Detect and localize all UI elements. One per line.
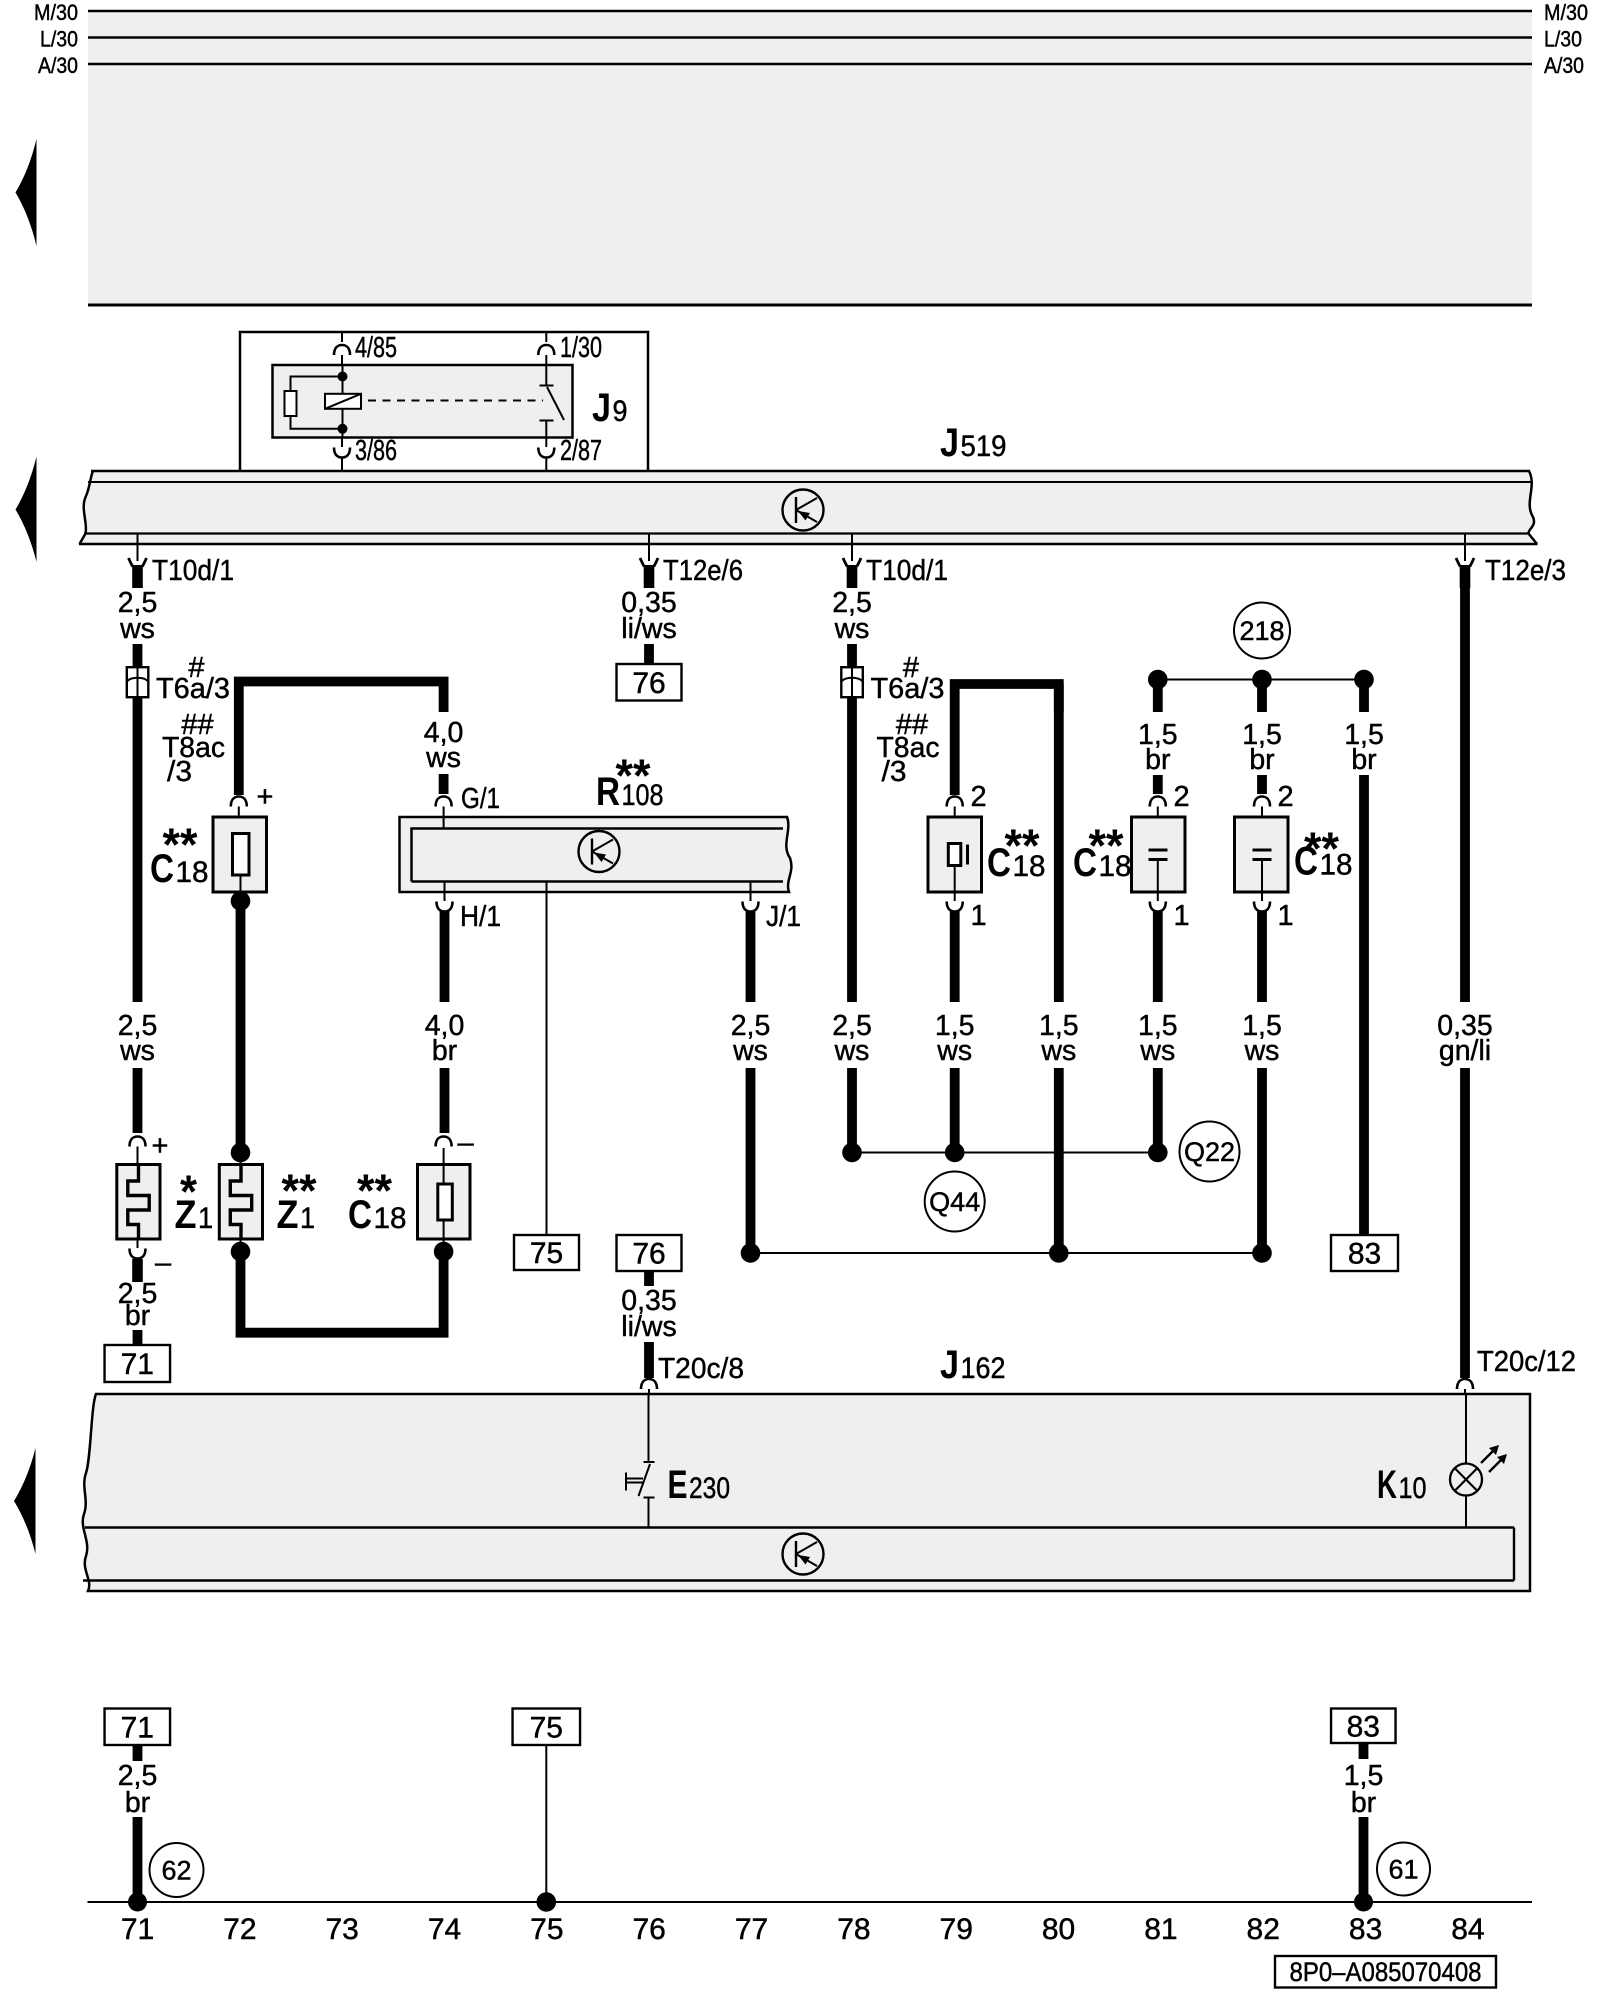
relay coil (325, 394, 361, 409)
C18 fifth labels (1073, 820, 1132, 886)
inline connector T6a/3 left (127, 667, 149, 697)
power rail band 30 (88, 11, 1532, 305)
wire C18 to Z1 second (231, 901, 251, 1165)
wire L/30 rail (40, 27, 1582, 52)
svg-text:C: C (987, 841, 1011, 885)
svg-text:1/30: 1/30 (560, 332, 602, 364)
junction dots on 218 link (1148, 670, 1374, 690)
junction dot left of Q44 line (842, 1143, 862, 1163)
wire T10d/1 to T6a/3 right (847, 644, 857, 668)
relay switch contact (540, 365, 565, 438)
terminal 1 of C18 fourth (947, 900, 987, 932)
svg-text:62: 62 (161, 1856, 191, 1886)
current track baseline (88, 1901, 1533, 1903)
continuation arrow at J519 (16, 457, 37, 563)
J162 internal K symbol (783, 1534, 824, 1575)
ground wire 1,5 br at 83 (1344, 1743, 1384, 1912)
junction below C18 third (434, 1242, 454, 1262)
svg-text:82: 82 (1247, 1913, 1280, 1946)
terminal 2/87 (538, 435, 602, 481)
svg-text:Z: Z (175, 1193, 197, 1237)
C18 third labels (348, 1165, 407, 1238)
svg-text:–: – (155, 1247, 172, 1279)
svg-text:230: 230 (689, 1472, 730, 1505)
wire 1,5 br to C18 fifth (1138, 680, 1178, 795)
wire T10d/1 to T6a/3 (133, 644, 143, 668)
wire 2,5 ws label left (118, 587, 158, 645)
R108 centre lead to ground 75 (546, 882, 548, 1236)
svg-text:76: 76 (633, 1913, 666, 1946)
C18 fourth labels (987, 820, 1046, 886)
svg-text:T12e/3: T12e/3 (1485, 555, 1566, 587)
svg-text:br: br (1249, 744, 1275, 776)
terminal 3/86 (334, 435, 397, 481)
ground lead box 75 bottom (513, 1709, 581, 1912)
svg-text:L/30: L/30 (1544, 27, 1582, 52)
ground designation box 76 mid (617, 1235, 682, 1271)
indicator lamp K10 (1377, 1394, 1507, 1528)
svg-text:C: C (150, 847, 174, 891)
ground designation box 75 mid (514, 1235, 579, 1270)
svg-text:80: 80 (1042, 1913, 1075, 1946)
node link line Q22 (852, 1152, 1158, 1154)
junction below C18 left (231, 891, 251, 911)
continuation arrow at J162 (14, 1448, 36, 1554)
svg-text:75: 75 (530, 1913, 563, 1946)
wire 1,5 ws hook leg down (1039, 684, 1079, 1263)
svg-text:76: 76 (632, 667, 665, 700)
svg-text:74: 74 (428, 1913, 461, 1946)
svg-text:br: br (432, 1035, 458, 1067)
svg-text:71: 71 (121, 1711, 154, 1744)
svg-text:79: 79 (940, 1913, 973, 1946)
terminal - of Z1 and pin to 71 (118, 1239, 172, 1345)
control unit J162 body (83, 1394, 1530, 1591)
svg-text:/3: /3 (167, 756, 192, 788)
svg-text:ws: ws (732, 1035, 768, 1067)
wire M/30 rail (34, 0, 1588, 25)
terminal T12e/6 (640, 534, 743, 589)
svg-text:10: 10 (1399, 1472, 1427, 1505)
svg-text:ws: ws (1139, 1035, 1175, 1067)
svg-text:L/30: L/30 (40, 27, 78, 52)
terminal 1 of C18 fifth (1150, 900, 1190, 932)
node number Q44 (925, 1172, 985, 1232)
heated washer jets R108 designator (596, 750, 664, 815)
wire 0,35 li/ws to T20c/8 (621, 1271, 744, 1394)
wire 1,5 br to C18 sixth (1242, 680, 1282, 795)
svg-text:2: 2 (971, 781, 987, 813)
inline connector T6a/3 right (841, 667, 863, 697)
svg-text:M/30: M/30 (1544, 0, 1588, 25)
svg-text:Q44: Q44 (929, 1187, 980, 1217)
svg-text:Q22: Q22 (1184, 1137, 1235, 1167)
terminal 2 of C18 fifth (1150, 781, 1190, 850)
terminal + of Z1 (130, 1130, 169, 1165)
svg-text:75: 75 (530, 1237, 563, 1270)
svg-text:76: 76 (632, 1238, 665, 1271)
wire 0,35 li/ws to ground 76 (621, 587, 676, 664)
terminal T12e/3 (1456, 534, 1566, 589)
svg-text:73: 73 (325, 1913, 358, 1946)
ground designation box 71 mid (105, 1345, 171, 1382)
svg-text:ws: ws (834, 1035, 870, 1067)
wire 1,5 ws C18 sixth down (1242, 912, 1282, 1263)
svg-text:ws: ws (119, 1035, 155, 1067)
wire hook T6a/3 to C18 pin 2 (955, 684, 1059, 795)
svg-text:br: br (125, 1300, 151, 1332)
svg-text:T12e/6: T12e/6 (663, 555, 743, 587)
wire 2,5 ws label right column (832, 587, 872, 645)
relay actuation dashed link (368, 400, 543, 402)
svg-text:ws: ws (834, 613, 870, 645)
svg-text:/3: /3 (882, 756, 907, 788)
svg-text:ws: ws (1244, 1035, 1280, 1067)
ground wire 2,5 br at 71 (118, 1745, 158, 1912)
terminal T10d/1 right (843, 534, 948, 589)
terminal + of C18 suppressor (231, 781, 274, 834)
svg-text:108: 108 (622, 779, 664, 812)
terminal 1 of C18 sixth (1254, 900, 1294, 932)
svg-text:gn/li: gn/li (1439, 1035, 1491, 1067)
svg-text:A/30: A/30 (38, 53, 78, 78)
node link line lower (751, 1252, 1263, 1254)
svg-text:ws: ws (119, 613, 155, 645)
connector labels # T6a/3 ## T8ac/3 left (156, 652, 230, 788)
ground designation box 71 bottom (105, 1709, 171, 1746)
C18 left labels (150, 819, 209, 892)
svg-text:li/ws: li/ws (621, 613, 676, 645)
wire 1,5 ws C18 fifth to Q22 node (1138, 912, 1178, 1163)
heated washer jets switch E230 (626, 1394, 730, 1528)
svg-text:ws: ws (425, 742, 461, 774)
current track numbers (121, 1913, 1485, 1946)
terminal T10d/1 left (129, 534, 235, 589)
terminal 2 of C18 fourth (947, 781, 987, 844)
svg-text:18: 18 (1013, 850, 1046, 883)
wire A/30 rail (38, 53, 1584, 78)
svg-text:C: C (348, 1193, 372, 1237)
capacitor C18 sixth (1235, 817, 1289, 901)
svg-text:84: 84 (1451, 1913, 1484, 1946)
svg-text:162: 162 (961, 1352, 1006, 1385)
svg-text:C: C (1294, 840, 1318, 884)
svg-text:Z: Z (277, 1193, 299, 1237)
wire 4,0 ws hook to R108 G/1 (239, 682, 464, 796)
svg-text:77: 77 (735, 1913, 768, 1946)
svg-text:T6a/3: T6a/3 (871, 673, 945, 705)
svg-text:C: C (1073, 841, 1097, 885)
ground location 62 (150, 1843, 204, 1897)
svg-text:3/86: 3/86 (355, 435, 397, 467)
connector labels # T6a/3 ## T8ac/3 right (871, 652, 945, 788)
svg-text:T6a/3: T6a/3 (156, 673, 230, 705)
svg-text:E: E (668, 1463, 688, 1507)
terminal G/1 (436, 783, 500, 829)
svg-text:18: 18 (1320, 849, 1353, 882)
svg-text:J/1: J/1 (766, 901, 801, 933)
svg-text:M/30: M/30 (34, 0, 78, 25)
relay designator J9 (592, 386, 628, 430)
svg-text:83: 83 (1348, 1238, 1381, 1271)
svg-text:T10d/1: T10d/1 (866, 555, 948, 587)
svg-text:83: 83 (1347, 1710, 1380, 1743)
continuation arrow top left (16, 139, 37, 246)
svg-text:br: br (125, 1787, 151, 1819)
svg-text:+: + (152, 1130, 169, 1162)
svg-text:218: 218 (1239, 616, 1284, 646)
band bottom border (88, 304, 1532, 307)
relay parallel resistor (285, 372, 348, 434)
suppressor C18 left (213, 817, 267, 901)
wire 1,5 br to box 83 (1344, 680, 1384, 1236)
node link line 218 (1158, 679, 1364, 681)
svg-text:T10d/1: T10d/1 (152, 555, 234, 587)
svg-text:G/1: G/1 (461, 783, 500, 815)
svg-text:4/85: 4/85 (355, 332, 397, 364)
ground designation box 83 bottom (1331, 1709, 1396, 1744)
wire U link Z1 to C18 (241, 1252, 444, 1333)
svg-text:18: 18 (374, 1202, 407, 1235)
svg-text:9: 9 (613, 395, 628, 428)
node number 218 (1234, 603, 1290, 659)
terminal J/1 (743, 882, 802, 934)
svg-text:1: 1 (1278, 900, 1294, 932)
terminal 4/85 (334, 332, 397, 365)
diagram part number (1275, 1956, 1496, 1988)
svg-text:72: 72 (223, 1913, 256, 1946)
svg-text:18: 18 (176, 856, 209, 889)
svg-text:83: 83 (1349, 1913, 1382, 1946)
J162 designator (940, 1343, 1006, 1387)
capacitor C18 fifth (1132, 817, 1186, 901)
svg-text:2: 2 (1278, 781, 1294, 813)
svg-text:8P0–A085070408: 8P0–A085070408 (1290, 1957, 1482, 1987)
C18 sixth labels (1294, 823, 1353, 884)
ground location 61 (1377, 1843, 1430, 1896)
relay J9 outer enclosure (240, 332, 648, 481)
svg-text:81: 81 (1144, 1913, 1177, 1946)
svg-text:519: 519 (961, 430, 1007, 463)
Z1 second bottom lead (231, 1239, 251, 1261)
svg-text:K: K (1377, 1463, 1397, 1507)
onboard supply control unit J519 (79, 471, 1538, 544)
relay coil wire (342, 365, 344, 438)
svg-text:li/ws: li/ws (621, 1311, 676, 1343)
svg-text:–: – (458, 1127, 475, 1159)
relay J9 body (273, 365, 573, 438)
wire 4,0 br H/1 to C18 (425, 912, 465, 1134)
wire 2,5 ws J/1 down (731, 912, 771, 1263)
terminal 1/30 (538, 332, 602, 365)
svg-text:H/1: H/1 (460, 901, 501, 933)
svg-text:78: 78 (837, 1913, 870, 1946)
wire 0,35 gn/li to T20c/12 (1437, 587, 1576, 1394)
suppressor C18 fourth (928, 817, 982, 901)
terminal H/1 (437, 882, 502, 934)
Z1 second labels (277, 1165, 317, 1238)
svg-text:ws: ws (1040, 1035, 1076, 1067)
svg-text:75: 75 (530, 1711, 563, 1744)
svg-text:J: J (940, 1343, 959, 1387)
svg-text:br: br (1351, 1787, 1377, 1819)
svg-text:1: 1 (198, 1202, 213, 1235)
heated washer nozzle Z1 first (117, 1165, 160, 1240)
svg-text:J: J (940, 421, 959, 465)
ground designation box 76 upper (617, 664, 682, 701)
terminal 2 of C18 sixth (1254, 781, 1294, 850)
suppressor C18 third (418, 1148, 471, 1252)
wire 2,5 ws T6a/3 to Z1 (118, 697, 158, 1133)
windscreen washer heater R108 body (400, 817, 792, 892)
R108 internal K symbol (579, 831, 620, 872)
svg-text:br: br (1145, 744, 1171, 776)
svg-text:1: 1 (300, 1202, 315, 1235)
J519 internal K symbol (783, 490, 824, 531)
wire 2,5 ws T6a/3 to node Q44 (832, 697, 872, 1152)
wire 1,5 ws C18 fourth to Q44 node (935, 912, 975, 1163)
J519 designator (940, 421, 1007, 465)
svg-text:br: br (1351, 744, 1377, 776)
svg-text:R: R (596, 770, 620, 814)
relay enclosure stubs into J519 (240, 470, 648, 481)
svg-text:71: 71 (121, 1913, 154, 1946)
svg-text:2/87: 2/87 (560, 435, 602, 467)
svg-text:1: 1 (971, 900, 987, 932)
svg-text:A/30: A/30 (1544, 53, 1584, 78)
Z1 first labels (175, 1166, 214, 1238)
svg-text:ws: ws (936, 1035, 972, 1067)
ground designation box 83 mid (1331, 1235, 1398, 1271)
svg-text:61: 61 (1388, 1855, 1418, 1885)
terminal - of C18 third (436, 1127, 475, 1159)
svg-text:18: 18 (1099, 850, 1132, 883)
svg-text:71: 71 (121, 1348, 154, 1381)
svg-text:1: 1 (1174, 900, 1190, 932)
svg-text:T20c/8: T20c/8 (658, 1353, 744, 1385)
heated washer nozzle Z1 second (219, 1165, 262, 1240)
svg-text:J: J (592, 386, 611, 430)
node number Q22 (1180, 1122, 1240, 1182)
svg-text:2: 2 (1174, 781, 1190, 813)
svg-text:+: + (257, 781, 274, 813)
svg-text:T20c/12: T20c/12 (1477, 1346, 1576, 1378)
